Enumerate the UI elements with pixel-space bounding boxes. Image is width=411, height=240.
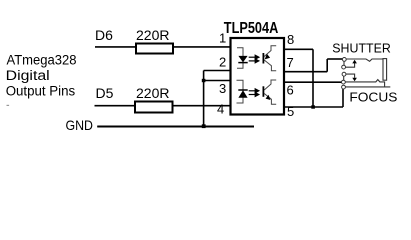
svg-text:TLP504A: TLP504A: [224, 20, 278, 37]
svg-text:Output Pins: Output Pins: [6, 84, 76, 100]
svg-text:GND: GND: [66, 117, 94, 133]
svg-text:8: 8: [287, 32, 294, 47]
svg-text:D6: D6: [95, 27, 113, 43]
svg-text:3: 3: [219, 81, 226, 96]
svg-text:2: 2: [219, 54, 226, 69]
svg-text:220R: 220R: [136, 27, 169, 43]
svg-text:7: 7: [287, 55, 294, 70]
svg-text:4: 4: [217, 102, 224, 117]
svg-text:1: 1: [219, 31, 226, 46]
svg-text:SHUTTER: SHUTTER: [332, 41, 391, 56]
svg-text:Digital: Digital: [6, 68, 50, 84]
svg-text:220R: 220R: [136, 85, 169, 101]
svg-text:FOCUS: FOCUS: [349, 90, 397, 105]
svg-text:ATmega328: ATmega328: [7, 52, 77, 68]
svg-text:5: 5: [287, 104, 294, 119]
svg-text:6: 6: [287, 83, 294, 98]
svg-text:D5: D5: [96, 85, 114, 101]
